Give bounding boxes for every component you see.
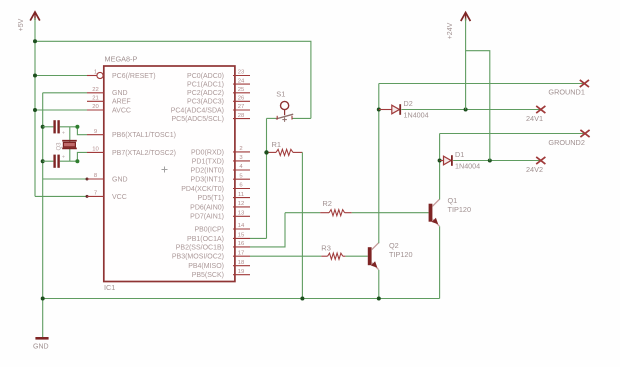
- svg-text:PD0(RXD): PD0(RXD): [191, 149, 224, 156]
- svg-text:PD2(INT0): PD2(INT0): [191, 167, 224, 174]
- svg-text:R1: R1: [272, 140, 282, 149]
- IC1 origin cross: [162, 167, 168, 173]
- junction C top cap: [41, 125, 45, 129]
- wire +5V to VCC pin 7: [35, 195, 87, 197]
- svg-text:TIP120: TIP120: [389, 250, 413, 259]
- svg-text:PB1(OC1A): PB1(OC1A): [187, 236, 224, 243]
- svg-text:IC1: IC1: [104, 283, 115, 292]
- svg-text:PC0(ADC0): PC0(ADC0): [187, 73, 224, 80]
- wire Q1 emitter to GND rail: [439, 226, 441, 298]
- IC1 pin 17 PB3(MOSI/OC2) (right): [172, 250, 250, 260]
- IC1 pin 9 PB6(XTAL1/TOSC1) (left): [87, 129, 176, 139]
- wire S1 left contact: [267, 117, 278, 119]
- IC1 pin 8 GND (left): [87, 173, 128, 183]
- svg-text:PB4(MISO): PB4(MISO): [188, 263, 224, 270]
- IC1 pin 16 PB2(SS/OC1B) (right): [176, 241, 250, 251]
- svg-text:1N4004: 1N4004: [455, 162, 480, 171]
- svg-text:23: 23: [238, 70, 245, 76]
- svg-text:Q3: Q3: [57, 142, 63, 151]
- svg-text:Q1: Q1: [448, 196, 458, 205]
- svg-text:TIP120: TIP120: [448, 205, 472, 214]
- power +5V symbol: [18, 12, 40, 31]
- svg-text:D2: D2: [404, 99, 413, 108]
- wire S1 to node A vertical: [266, 118, 268, 238]
- IC1 pin 15 PB1(OC1A) (right): [187, 233, 250, 243]
- junction XTAL2 net: [75, 159, 79, 163]
- wire Q1 collector up to GROUND2/D1: [439, 134, 441, 200]
- IC1 pin 4 PD2(INT0) (right): [191, 164, 250, 174]
- svg-text:15: 15: [238, 233, 245, 239]
- svg-text:25: 25: [238, 87, 245, 93]
- IC1 pin 21 AREF (left): [87, 96, 131, 106]
- svg-text:24: 24: [238, 78, 245, 84]
- wire GROUND2: [440, 133, 585, 135]
- wire D1 anode lead: [440, 160, 444, 162]
- wire +5V to AVCC pin 20: [35, 109, 87, 111]
- wire to C2 left: [43, 160, 54, 162]
- ground symbol GND: [33, 338, 49, 350]
- IC1 pin 7 VCC (left): [87, 191, 127, 201]
- wire R3 to Q2 base: [345, 255, 367, 257]
- junction XTAL1 net: [75, 125, 79, 129]
- svg-text:14: 14: [238, 223, 245, 229]
- resistor R2: [320, 199, 352, 216]
- IC1 pin 28 PC5(ADC5/SCL) (right): [171, 113, 250, 123]
- switch S1: [276, 90, 293, 122]
- IC1 pin 11 PD5(T1) (right): [198, 192, 250, 202]
- wire +5V top rail to S1: [35, 41, 311, 118]
- transistor Q1 TIP120: [429, 199, 440, 226]
- IC1 pin 18 PB4(MISO) (right): [188, 260, 250, 270]
- IC1 pin 22 GND (left): [87, 87, 128, 97]
- pad GROUND2: [580, 130, 589, 137]
- wire D1 cathode to 24V2: [453, 160, 541, 162]
- wire D2 cathode to 24V1: [401, 109, 540, 111]
- wire pin16 to R2: [285, 212, 320, 214]
- wire GND vertical: [42, 93, 44, 338]
- svg-text:R2: R2: [322, 199, 332, 208]
- svg-text:PB3(MOSI/OC2): PB3(MOSI/OC2): [172, 254, 224, 261]
- svg-text:+: +: [62, 155, 65, 161]
- pad 24V1: [536, 106, 545, 113]
- svg-text:GND: GND: [112, 90, 128, 97]
- IC1 pin 1 PC6(/RESET) (left): [87, 70, 156, 80]
- svg-text:PC1(ADC1): PC1(ADC1): [187, 82, 224, 89]
- wire GND bottom rail: [43, 298, 440, 300]
- IC1 pin 5 PD3(INT1) (right): [191, 173, 250, 183]
- IC1 pin 19 PB5(SCK) (right): [192, 269, 250, 279]
- junction +5V rail: [33, 39, 37, 43]
- wire Q2 emitter to GND rail: [378, 270, 380, 299]
- IC1 pin 2 PD0(RXD) (right): [191, 146, 250, 156]
- wire crystal vertical: [69, 127, 71, 161]
- svg-text:PB6(XTAL1/TOSC1): PB6(XTAL1/TOSC1): [112, 132, 176, 139]
- svg-text:28: 28: [238, 113, 245, 119]
- svg-text:+: +: [62, 131, 65, 137]
- svg-text:9: 9: [94, 129, 97, 135]
- junction Q2 emitter GND rail: [377, 297, 381, 301]
- svg-text:18: 18: [238, 260, 245, 266]
- svg-text:PD3(INT1): PD3(INT1): [191, 177, 224, 184]
- IC1 pin 23 PC0(ADC0) (right): [187, 70, 250, 80]
- IC1 pin 3 PD1(TXD) (right): [192, 155, 250, 165]
- resistor R3: [321, 243, 345, 259]
- svg-text:12: 12: [238, 201, 245, 207]
- diode D1 1N4004: [444, 150, 481, 171]
- capacitor C1 (XTAL load, top): [53, 120, 65, 136]
- crystal Q3: [57, 141, 77, 151]
- svg-text:GROUND1: GROUND1: [548, 88, 585, 97]
- svg-text:1: 1: [94, 70, 97, 76]
- IC1 pin 14 PB0(ICP) (right): [194, 223, 250, 233]
- svg-text:PC3(ADC3): PC3(ADC3): [187, 99, 224, 106]
- wire Q2 collector up to GROUND1/D2: [378, 84, 380, 244]
- IC1 pin 27 PC4(ADC4/SDA) (right): [171, 104, 250, 114]
- svg-text:17: 17: [238, 250, 245, 256]
- svg-text:PD7(AIN1): PD7(AIN1): [190, 214, 224, 221]
- svg-text:AVCC: AVCC: [112, 107, 131, 114]
- svg-text:PB0(ICP): PB0(ICP): [194, 226, 224, 233]
- svg-text:7: 7: [94, 191, 97, 197]
- svg-text:10: 10: [92, 147, 99, 153]
- IC1 pin 12 PD6(AIN0) (right): [190, 201, 250, 211]
- wire C1 right: [60, 126, 78, 128]
- svg-text:D1: D1: [455, 150, 464, 159]
- svg-text:PC5(ADC5/SCL): PC5(ADC5/SCL): [171, 116, 224, 123]
- IC1 pin 10 PB7(XTAL2/TOSC2) (left): [87, 147, 176, 157]
- IC1 pin 13 PD7(AIN1) (right): [190, 211, 250, 221]
- junction C bottom cap: [41, 159, 45, 163]
- wire pin 16 jog: [250, 213, 285, 247]
- pin 7 wire end dot: [86, 195, 89, 198]
- junction R1 GND rail: [300, 297, 304, 301]
- pad GROUND1: [580, 80, 589, 87]
- svg-text:PC4(ADC4/SDA): PC4(ADC4/SDA): [171, 107, 224, 114]
- resistor R1: [269, 140, 303, 156]
- wire to pin 10 XTAL2: [77, 152, 87, 161]
- IC1 pin 25 PC2(ADC2) (right): [187, 87, 250, 97]
- svg-text:PD6(AIN0): PD6(AIN0): [190, 204, 224, 211]
- svg-text:PC2(ADC2): PC2(ADC2): [187, 90, 224, 97]
- junction AVCC wire: [33, 108, 37, 112]
- wire R2 to Q1 base: [352, 212, 429, 214]
- wire +5V vertical: [34, 18, 36, 196]
- svg-text:+24V: +24V: [447, 22, 454, 39]
- svg-text:20: 20: [92, 104, 99, 110]
- svg-text:24V2: 24V2: [526, 165, 543, 174]
- wire GND to IC1 pin 22: [43, 92, 87, 94]
- microcontroller IC1 MEGA8-P: [104, 66, 235, 282]
- wire +5V to IC1 pin 1 /RESET: [35, 75, 97, 77]
- junction +24V feed 2: [488, 159, 492, 163]
- wire to pin 9 XTAL1: [77, 127, 87, 135]
- svg-text:PC6(/RESET): PC6(/RESET): [112, 73, 156, 80]
- svg-text:MEGA8-P: MEGA8-P: [105, 55, 138, 64]
- transistor Q2 TIP120: [368, 243, 379, 270]
- svg-text:PD5(T1): PD5(T1): [198, 195, 224, 202]
- wire C2 right: [60, 160, 78, 162]
- svg-text:GND: GND: [33, 344, 49, 351]
- svg-text:PB2(SS/OC1B): PB2(SS/OC1B): [176, 244, 224, 251]
- wire to C1 left: [43, 126, 54, 128]
- junction GND rail left: [41, 297, 45, 301]
- svg-text:1N4004: 1N4004: [404, 111, 429, 120]
- pin 8 wire end dot: [86, 178, 89, 181]
- svg-text:Q2: Q2: [389, 241, 399, 250]
- junction node A (S1/R1/PB1): [264, 150, 268, 154]
- wire +24V vertical: [465, 19, 467, 110]
- power +24V symbol: [447, 13, 470, 40]
- svg-text:11: 11: [238, 192, 244, 198]
- svg-text:27: 27: [238, 104, 245, 110]
- svg-text:13: 13: [238, 211, 245, 217]
- wire pin 17 to R3: [250, 255, 321, 257]
- svg-text:R3: R3: [321, 243, 331, 252]
- svg-text:S1: S1: [276, 90, 285, 99]
- svg-text:PB5(SCK): PB5(SCK): [192, 272, 224, 279]
- svg-text:PD1(TXD): PD1(TXD): [192, 158, 224, 165]
- junction D2 anode: [377, 108, 381, 112]
- svg-text:19: 19: [238, 269, 245, 275]
- wire S1 right contact: [292, 117, 311, 119]
- wire D2 anode lead: [379, 109, 392, 111]
- IC1 pin 26 PC3(ADC3) (right): [187, 96, 250, 106]
- wire R1 to GND rail: [301, 152, 303, 298]
- svg-text:GROUND2: GROUND2: [548, 138, 585, 147]
- capacitor C2 (XTAL load, bottom): [53, 155, 65, 168]
- svg-text:PB7(XTAL2/TOSC2): PB7(XTAL2/TOSC2): [112, 150, 176, 157]
- wire GND to IC1 pin 8: [43, 178, 87, 180]
- svg-text:21: 21: [92, 96, 99, 102]
- pad 24V2: [536, 157, 545, 164]
- IC1 pin 6 PD4(XCK/T0) (right): [181, 183, 250, 193]
- wire pin 15 to node A: [250, 237, 267, 239]
- svg-text:16: 16: [238, 241, 245, 247]
- svg-text:22: 22: [92, 87, 99, 93]
- junction D1 anode: [438, 159, 442, 163]
- svg-text:+5V: +5V: [18, 18, 25, 31]
- svg-text:VCC: VCC: [112, 194, 127, 201]
- svg-text:AREF: AREF: [112, 99, 131, 106]
- IC1 pin 24 PC1(ADC1) (right): [187, 78, 250, 88]
- wire +24V branch to D1 line: [466, 51, 490, 161]
- diode D2 1N4004: [392, 99, 429, 120]
- svg-text:26: 26: [238, 96, 245, 102]
- svg-text:GND: GND: [112, 176, 128, 183]
- junction +24V feed 1: [464, 108, 468, 112]
- svg-text:2: 2: [239, 146, 242, 152]
- junction reset wire: [33, 74, 37, 78]
- IC1 pin 20 AVCC (left): [87, 104, 131, 114]
- svg-text:24V1: 24V1: [526, 114, 543, 123]
- svg-text:PD4(XCK/T0): PD4(XCK/T0): [181, 186, 224, 193]
- wire GROUND1: [379, 83, 585, 85]
